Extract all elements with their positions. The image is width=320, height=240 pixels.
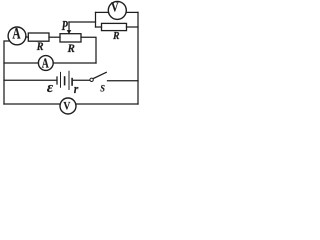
battery cell plate short 3 [71,79,73,85]
arrowhead of wiper P [67,30,72,34]
battery cell plate long 1 [60,72,62,87]
wire to R2 left [96,26,102,28]
potentiometer R (rheostat body) [60,34,81,42]
label R2 [112,31,120,42]
wire battery to switch [73,79,90,81]
wire left rail [4,41,10,104]
wire switch to right rail [108,80,139,82]
svg-text:A: A [12,26,20,43]
wire wiper to divider node [69,21,96,23]
wire right rail [137,12,139,104]
label R pot [67,43,76,55]
svg-text:ε: ε [47,79,54,96]
switch S lever [93,72,106,78]
svg-text:R: R [112,31,120,42]
voltmeter V2 [60,98,76,114]
svg-text:V: V [111,0,119,15]
svg-text:R: R [36,40,44,52]
label S (switch) [100,83,105,94]
svg-text:A: A [42,55,49,71]
svg-text:P: P [62,18,69,34]
resistor R2 [102,23,127,30]
wiper arrow P [68,22,70,30]
resistor R1 [28,33,49,41]
wire left rail to A2 [4,62,38,64]
label A1 [12,26,20,43]
battery cell plate short 2 [64,77,66,85]
label r (internal resistance) [74,81,79,96]
svg-text:V: V [63,100,70,113]
label V1 [111,0,119,15]
wire pot right to down node [81,37,96,63]
wire R1 to pot [49,36,60,38]
wire node vertical (left side of V1/R2 parallel) [95,12,97,27]
voltmeter V1 [108,1,126,19]
ammeter A1 [8,27,26,45]
wire V2 to right rail bottom [76,103,138,105]
svg-text:S: S [100,83,105,94]
label V2 [63,100,70,113]
wire V1 right [126,11,138,13]
wire A1 to R1 [26,36,28,38]
svg-text:r: r [74,81,79,96]
label epsilon (EMF) [47,79,54,96]
wire left rail to battery [4,79,57,81]
battery cell plate short 1 [56,77,58,84]
label A2 [42,55,49,71]
wire to V1 left [96,11,109,13]
switch S pivot circle [90,78,93,81]
battery cell plate long 2 [68,71,70,89]
wire A2 right to node [53,62,96,64]
wire R2 right [127,26,139,28]
label P [62,18,69,34]
wire bottom left to V2 [4,103,60,105]
label R1 [36,40,44,52]
svg-text:R: R [67,43,76,55]
ammeter A2 [38,56,53,71]
